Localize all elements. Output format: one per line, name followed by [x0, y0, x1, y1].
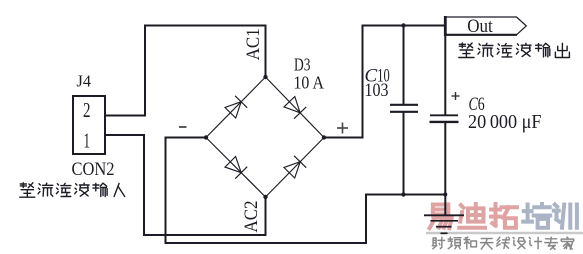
diode D3a (minus to AC1, top-left) [225, 96, 247, 118]
svg-text:103: 103 [365, 80, 389, 101]
wire J4 pin1 to bridge AC2 (bottom-left) [105, 134, 267, 236]
ground symbol [424, 215, 464, 233]
node plus junction [322, 135, 326, 139]
node AC1 junction [263, 75, 267, 79]
label 整流滤波输出 [459, 43, 570, 58]
plus terminal label [337, 123, 348, 134]
svg-text:10 A: 10 A [294, 73, 325, 93]
svg-text:2: 2 [83, 98, 91, 122]
wire C10 top lead [403, 26, 405, 105]
diode D3c (minus to AC2, bottom-left) [225, 157, 247, 179]
junction C10 bottom [401, 192, 405, 196]
diode bridge D3 diagonals [206, 77, 324, 197]
svg-text:Out: Out [467, 17, 493, 37]
capacitor C10 plates [390, 105, 418, 112]
connector J4 box [73, 96, 105, 154]
wire bridge minus to bottom rail and caps ground [165, 137, 447, 245]
svg-text:AC2: AC2 [241, 201, 262, 233]
svg-text:D3: D3 [294, 55, 311, 75]
junction C10 top [401, 23, 405, 27]
net flag Out [444, 16, 526, 36]
svg-text:AC1: AC1 [243, 28, 264, 60]
capacitor C6 plates (polarized) [430, 115, 459, 122]
plus polarity mark of C6 [452, 92, 460, 100]
watermark logo 易迪拓培训 [430, 204, 577, 228]
watermark underline [426, 232, 583, 234]
node minus junction [204, 135, 208, 139]
diode D3b (AC1 to plus, top-right) [284, 97, 306, 119]
watermark tagline 射频和天线设计专家 [432, 237, 573, 249]
svg-text:1: 1 [84, 129, 91, 153]
wire C6 top lead [444, 34, 446, 115]
wire J4 pin2 to bridge AC1 (top-left) [105, 25, 267, 117]
node AC2 junction [263, 195, 267, 199]
svg-text:20 000 μF: 20 000 μF [468, 111, 542, 133]
diode D3d (AC2 to plus, bottom-right) [284, 156, 306, 178]
svg-text:J4: J4 [77, 72, 92, 91]
label 整流滤波输入 [20, 183, 125, 197]
wire C6 bottom lead to ground [444, 122, 446, 215]
wire C10 bottom lead [403, 112, 405, 195]
wire bridge plus to top rail [324, 25, 446, 139]
minus terminal label [179, 126, 187, 128]
junction C6 bottom [443, 193, 447, 197]
svg-text:CON2: CON2 [72, 159, 115, 180]
